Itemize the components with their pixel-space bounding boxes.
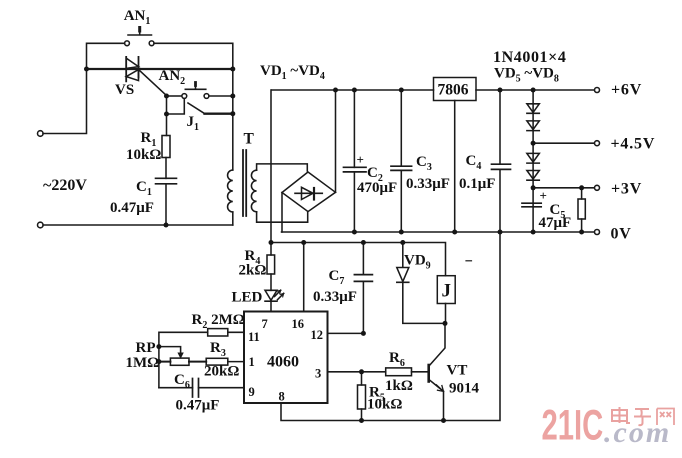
svg-text:0.1μF: 0.1μF xyxy=(459,176,495,192)
svg-text:0.47μF: 0.47μF xyxy=(110,200,154,216)
svg-text:+4.5V: +4.5V xyxy=(611,136,656,153)
svg-text:0V: 0V xyxy=(611,226,632,243)
svg-text:21IC: 21IC xyxy=(542,401,604,449)
svg-text:+3V: +3V xyxy=(611,181,642,198)
svg-text:12: 12 xyxy=(311,328,324,342)
svg-text:8: 8 xyxy=(279,390,285,404)
svg-text:+: + xyxy=(540,188,547,203)
svg-text:7806: 7806 xyxy=(438,82,469,99)
svg-text:9014: 9014 xyxy=(449,381,480,397)
svg-text:0.47μF: 0.47μF xyxy=(176,398,220,414)
svg-text:J: J xyxy=(442,281,452,302)
svg-text:9: 9 xyxy=(249,385,255,399)
svg-text:470μF: 470μF xyxy=(357,180,397,196)
svg-text:.com: .com xyxy=(604,416,671,449)
svg-text:1MΩ: 1MΩ xyxy=(126,355,160,371)
svg-text:+6V: +6V xyxy=(611,82,642,99)
svg-text:1kΩ: 1kΩ xyxy=(385,378,413,394)
svg-text:47μF: 47μF xyxy=(539,215,572,231)
svg-text:11: 11 xyxy=(248,330,260,344)
svg-text:VS: VS xyxy=(115,82,134,98)
svg-text:16: 16 xyxy=(292,317,305,331)
svg-text:0.33μF: 0.33μF xyxy=(406,176,450,192)
svg-text:+: + xyxy=(357,152,364,167)
svg-text:7: 7 xyxy=(262,317,268,331)
svg-text:~220V: ~220V xyxy=(43,177,87,194)
svg-text:1N4001×4: 1N4001×4 xyxy=(493,49,566,66)
svg-text:3: 3 xyxy=(315,367,321,381)
svg-text:10kΩ: 10kΩ xyxy=(126,147,161,163)
svg-text:VT: VT xyxy=(447,363,468,379)
svg-text:LED: LED xyxy=(232,290,263,306)
svg-text:4060: 4060 xyxy=(267,354,299,371)
svg-text:T: T xyxy=(244,131,255,148)
svg-text:2kΩ: 2kΩ xyxy=(239,263,267,279)
svg-text:1: 1 xyxy=(249,355,255,369)
svg-text:20kΩ: 20kΩ xyxy=(204,364,239,380)
svg-text:0.33μF: 0.33μF xyxy=(313,289,357,305)
svg-text:10kΩ: 10kΩ xyxy=(367,397,402,413)
svg-text:RP: RP xyxy=(136,340,156,356)
